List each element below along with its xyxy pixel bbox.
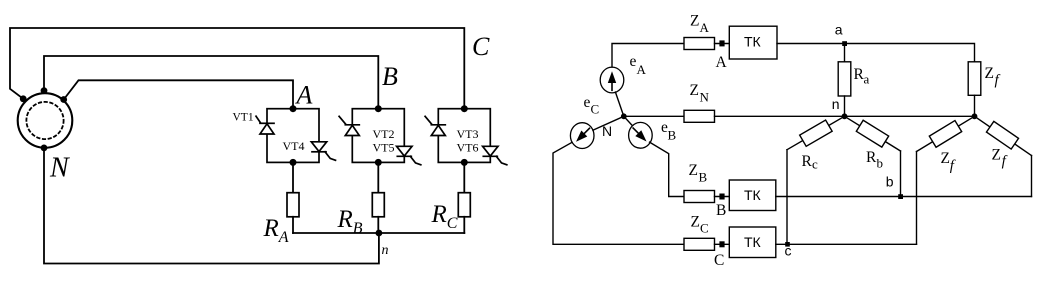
machine terminal dot top xyxy=(41,87,48,94)
svg-text:VT3: VT3 xyxy=(457,127,479,141)
svg-text:B: B xyxy=(699,170,708,185)
wire N to e_C xyxy=(593,116,624,130)
wire TK1 to node a xyxy=(777,43,845,45)
svg-text:b: b xyxy=(886,174,894,190)
label c xyxy=(785,243,792,259)
svg-text:f: f xyxy=(995,73,1001,89)
thyristor VT1 (left branch, conducts up) xyxy=(256,116,274,134)
label Z_f vertical xyxy=(985,65,1001,89)
svg-text:RB: RB xyxy=(337,206,363,237)
impedance Z_f left slant xyxy=(917,116,975,244)
label n node xyxy=(832,96,840,112)
svg-text:A: A xyxy=(700,20,710,35)
node A square dot xyxy=(719,40,724,46)
wire phase C from machine left terminal to VT3 box xyxy=(10,28,464,109)
svg-text:Z: Z xyxy=(689,162,698,179)
svg-text:R: R xyxy=(802,153,813,170)
svg-text:e: e xyxy=(630,53,637,70)
resistor R_c branch xyxy=(787,116,845,244)
thyristor VT6 (right branch) xyxy=(483,146,507,165)
wire R_A to bus xyxy=(292,217,294,233)
label C node xyxy=(714,252,724,269)
wire N to Z_N xyxy=(624,115,684,117)
label R_a xyxy=(854,66,870,87)
label R_C xyxy=(431,201,458,232)
svg-text:VT4: VT4 xyxy=(283,139,305,153)
wire Z_N to node n xyxy=(715,115,845,117)
resistor R_A xyxy=(287,193,299,217)
wire phase B from machine top terminal to VT2 box xyxy=(44,56,378,109)
svg-text:VT6: VT6 xyxy=(457,141,479,155)
node n (left diagram) xyxy=(376,230,383,237)
svg-text:Z: Z xyxy=(690,82,699,99)
svg-text:N: N xyxy=(49,153,70,184)
svg-text:Z: Z xyxy=(985,65,994,82)
svg-text:n: n xyxy=(832,96,840,112)
svg-text:ТК: ТК xyxy=(744,234,762,250)
junction dot box1 bottom xyxy=(290,159,297,166)
TK block 3 xyxy=(729,227,776,258)
wire box1 to resistor R_A xyxy=(292,162,294,192)
svg-text:f: f xyxy=(950,158,956,174)
wire R_C to bus xyxy=(463,217,465,233)
thyristor box VT3/VT6 xyxy=(438,109,490,163)
svg-text:VT5: VT5 xyxy=(373,141,395,155)
junction dot box1 top xyxy=(290,105,297,112)
label A phase xyxy=(295,81,313,110)
label e_A xyxy=(630,53,647,77)
svg-text:a: a xyxy=(835,22,843,38)
label N node xyxy=(602,123,612,139)
impedance Z_f vertical xyxy=(968,62,981,117)
svg-text:Z: Z xyxy=(690,13,699,30)
svg-text:A: A xyxy=(716,54,728,71)
machine stator outer circle xyxy=(18,93,73,148)
svg-text:RC: RC xyxy=(431,201,458,232)
bus wire joining resistors xyxy=(293,232,464,234)
source e_B xyxy=(629,122,653,148)
svg-text:A: A xyxy=(295,81,313,110)
svg-text:a: a xyxy=(864,72,870,87)
wire Z_A to TK1 xyxy=(715,43,730,45)
label n (left diagram) xyxy=(382,243,389,258)
label R_b xyxy=(866,149,883,171)
node n dot xyxy=(842,113,848,119)
wire R_B to bus xyxy=(377,217,379,233)
wire Z_B to TK2 xyxy=(715,196,730,198)
label e_B xyxy=(661,119,677,143)
node C square dot xyxy=(719,241,724,247)
wire a to Z_f corner xyxy=(845,44,975,62)
svg-text:n: n xyxy=(382,243,389,258)
thyristor VT5 (right branch) xyxy=(397,146,421,165)
svg-text:B: B xyxy=(668,128,677,143)
label B node xyxy=(716,202,726,219)
wire N to e_B xyxy=(624,116,632,125)
label N machine xyxy=(49,153,70,184)
junction dot box2 top xyxy=(375,105,382,112)
svg-text:C: C xyxy=(472,32,490,61)
svg-text:ТК: ТК xyxy=(744,34,762,50)
svg-text:ТК: ТК xyxy=(744,187,762,203)
wire TK2 to Z_f star (b row) xyxy=(776,196,1032,198)
wire Z_C to TK3 xyxy=(715,243,730,245)
wire box2 to resistor R_B xyxy=(377,162,379,192)
machine terminal dot right xyxy=(60,96,67,103)
label Z_C xyxy=(691,214,709,236)
svg-text:C: C xyxy=(591,102,600,117)
svg-text:Z: Z xyxy=(941,150,950,167)
wire n to Z_f star node xyxy=(845,115,975,117)
label A node xyxy=(716,54,728,71)
impedance Z_N xyxy=(684,110,715,122)
label Z_N xyxy=(690,82,710,105)
svg-text:c: c xyxy=(785,243,792,259)
impedance Z_A xyxy=(684,38,715,50)
source e_A xyxy=(600,67,624,93)
junction dot box2 bottom xyxy=(375,159,382,166)
svg-text:A: A xyxy=(637,62,647,77)
svg-text:C: C xyxy=(700,221,709,236)
wire e_A to Z_A xyxy=(612,44,684,68)
machine terminal dot bottom xyxy=(41,145,48,152)
svg-text:B: B xyxy=(382,62,398,91)
label C phase xyxy=(472,32,490,61)
wire phase A from machine right terminal to VT1 box xyxy=(64,80,293,108)
svg-text:Z: Z xyxy=(691,214,700,231)
wire box3 to resistor R_C xyxy=(463,162,465,192)
label Z_B xyxy=(689,162,708,185)
svg-text:R: R xyxy=(866,149,877,166)
label B phase xyxy=(382,62,398,91)
resistor R_C xyxy=(458,193,470,217)
label Z_f left slant xyxy=(941,150,956,174)
node b dot xyxy=(898,194,903,199)
node a xyxy=(842,41,847,46)
resistor R_a xyxy=(838,44,851,117)
label Z_A xyxy=(690,13,710,36)
svg-text:VT1: VT1 xyxy=(233,112,254,124)
junction dot box3 top xyxy=(461,105,468,112)
resistor R_b branch xyxy=(845,116,901,196)
node c dot xyxy=(785,242,790,247)
node N dot xyxy=(621,113,627,119)
impedance Z_f right slant xyxy=(975,116,1032,196)
wire e_B to Z_B row xyxy=(650,142,685,196)
thyristor VT3 (left branch) xyxy=(425,116,445,135)
svg-text:e: e xyxy=(584,94,591,111)
node B square dot xyxy=(719,194,724,200)
wire e_A to node N xyxy=(615,92,623,116)
svg-text:RA: RA xyxy=(263,215,289,246)
impedance Z_C xyxy=(684,238,715,250)
thyristor VT4 (right branch, conducts down) xyxy=(311,142,335,161)
wire TK3 to Z_f left slant (c row) xyxy=(776,243,917,245)
thyristor VT2 (left branch) xyxy=(339,116,359,135)
label R_A xyxy=(263,215,289,246)
junction dot box3 bottom xyxy=(461,159,468,166)
thyristor box VT2/VT5 xyxy=(352,109,404,163)
svg-text:c: c xyxy=(812,157,818,172)
machine terminal dot left xyxy=(20,95,27,102)
TK block 1 xyxy=(729,26,777,59)
wire e_C to Z_C row xyxy=(553,142,684,244)
label R_c xyxy=(802,153,819,172)
label b xyxy=(886,174,894,190)
svg-text:VT2: VT2 xyxy=(373,127,395,141)
Z_f star node dot xyxy=(972,113,978,119)
label a xyxy=(835,22,843,38)
svg-text:b: b xyxy=(877,156,884,171)
svg-text:f: f xyxy=(1002,154,1008,170)
svg-text:B: B xyxy=(716,202,726,219)
svg-text:Z: Z xyxy=(992,147,1001,164)
svg-text:C: C xyxy=(714,252,724,269)
svg-text:N: N xyxy=(700,90,710,105)
source e_C xyxy=(570,123,594,149)
label R_B xyxy=(337,206,363,237)
impedance Z_B xyxy=(684,191,715,203)
resistor R_B xyxy=(372,193,384,217)
wire neutral return from machine bottom to node n xyxy=(44,148,379,264)
label e_C xyxy=(584,94,600,117)
label Z_f right slant xyxy=(992,147,1008,170)
TK block 2 xyxy=(729,180,776,211)
machine rotor dashed circle xyxy=(26,102,63,139)
thyristor box VT1/VT4 xyxy=(267,109,319,163)
